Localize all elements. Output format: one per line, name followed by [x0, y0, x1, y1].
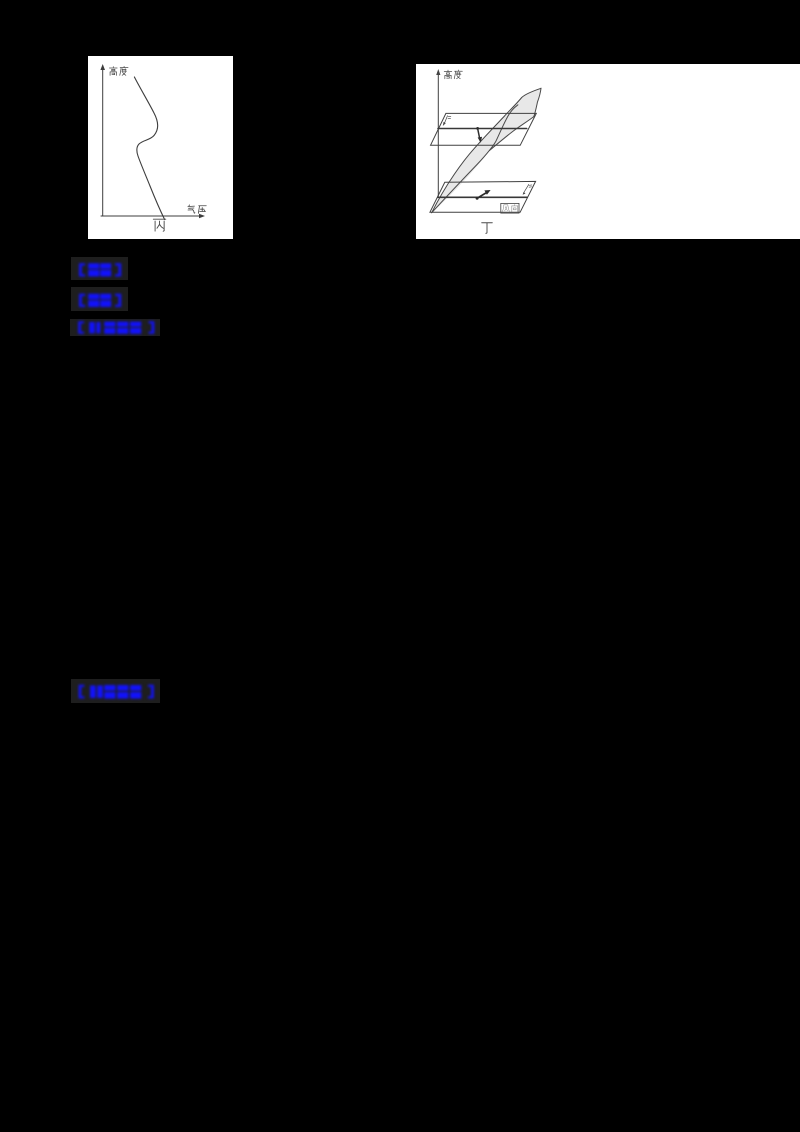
label 高度 (height) [109, 66, 128, 75]
ribbon edge A (upper-left boundary) [432, 88, 541, 212]
ribbon edge B (lower-right boundary) [432, 105, 518, 213]
label 丁 [482, 223, 493, 234]
figure box 丙 (left chart panel) [88, 56, 233, 239]
label 高度 (height) [444, 70, 462, 79]
figure box 丁 (right 3D wind diagram panel) [416, 64, 800, 239]
ribbon leaf right edge [534, 88, 541, 116]
ribbon fold sweep [490, 117, 534, 151]
lower plane wind arrow [476, 190, 491, 200]
风向 label box [501, 203, 519, 213]
vertical axis (height) [436, 69, 440, 196]
upper plane wind arrow [476, 127, 482, 143]
blue link item 2 【解析】 [71, 287, 128, 311]
blue link item 4 【22题详解】 [71, 679, 160, 703]
upper plane tiny annotation [443, 116, 451, 126]
label 丙 [153, 219, 165, 231]
vertical axis (height) [100, 64, 105, 216]
label 气压 (pressure) [188, 205, 206, 213]
shaded ribbon (twisted wind surface) [432, 88, 541, 212]
upper plane [431, 113, 537, 145]
horizontal axis (pressure) [101, 214, 205, 218]
blue link item 3 【21题详解】 [70, 319, 160, 336]
lower plane tiny annotation [523, 184, 532, 194]
pressure curve [134, 77, 164, 220]
blue link item 1 【答案】 [71, 257, 128, 280]
lower plane [430, 181, 536, 212]
